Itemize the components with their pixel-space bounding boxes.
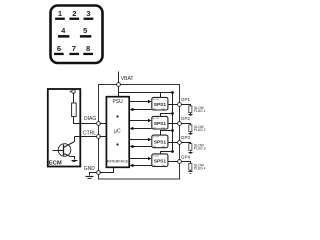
wire GP2 to glow plug: [182, 124, 191, 125]
wire GP3 to glow plug: [182, 143, 191, 144]
wire GP4 to glow plug: [182, 162, 191, 164]
VBAT stub wire: [118, 72, 120, 83]
wire CTRL: [75, 136, 97, 138]
svg-text:PLUG 4: PLUG 4: [194, 166, 206, 170]
collector riser wire to CTRL: [74, 137, 76, 142]
pin 6: [54, 44, 64, 55]
SPS4 In wire: [130, 158, 149, 160]
wire: [190, 132, 192, 134]
wire: [73, 93, 75, 103]
svg-text:INTERFACE: INTERFACE: [107, 158, 128, 163]
svg-text:SPS1: SPS1: [154, 121, 167, 127]
ground (glow plug 3): [189, 153, 193, 154]
terminal GP3: [178, 141, 182, 145]
pin 3: [84, 9, 94, 20]
svg-text:2: 2: [72, 9, 76, 18]
glow plug 1 (resistor): [189, 106, 192, 113]
svg-text:ECM: ECM: [49, 160, 62, 166]
pin 5: [80, 26, 91, 37]
SPS3 Out wire: [168, 142, 178, 144]
wire resistor to DIAG: [74, 117, 97, 124]
wire GND external to ground: [90, 173, 97, 176]
emitter wire to ground: [71, 157, 75, 160]
SPS1 top pin wire: [161, 93, 173, 98]
wire CTRL internal: [100, 136, 107, 138]
SPS1 In wire: [130, 101, 149, 103]
junction dots on bus: [171, 91, 174, 94]
svg-text:DIAG: DIAG: [84, 116, 96, 122]
terminal GND: [97, 171, 101, 175]
pin 4: [58, 26, 69, 37]
SPS supply bus: [172, 93, 174, 152]
svg-text:PLUG 2: PLUG 2: [194, 128, 206, 132]
svg-text:PSU: PSU: [112, 99, 123, 105]
SPS4 top pin wire: [161, 152, 173, 154]
terminal VBAT: [117, 83, 121, 87]
terminal DIAG: [97, 122, 101, 126]
pin 7: [69, 44, 79, 55]
svg-text:Out: Out: [161, 145, 165, 148]
svg-text:8: 8: [86, 44, 90, 53]
control unit boundary box: [99, 85, 180, 180]
svg-text:µC: µC: [114, 129, 121, 135]
svg-text:In TrB: In TrB: [153, 117, 159, 120]
svg-text:In TrB: In TrB: [153, 154, 159, 157]
SPS3 top pin wire: [161, 131, 173, 136]
wire DIAG internal: [100, 123, 107, 125]
ground (glow plug 2): [189, 134, 193, 135]
supply + terminal in ECM: [69, 89, 75, 95]
pin 2: [69, 9, 79, 20]
wire GP1 to glow plug: [182, 105, 191, 106]
label GLOW PLUG 4: [194, 163, 206, 170]
terminal GP2: [178, 122, 182, 126]
SPS3 In wire: [130, 139, 149, 141]
svg-text:PLUG 1: PLUG 1: [194, 109, 206, 113]
svg-text:PLUG 3: PLUG 3: [194, 147, 206, 151]
svg-text:GND: GND: [84, 166, 96, 172]
svg-text:GP4: GP4: [181, 155, 191, 160]
resistor R1 (pull-up in ECM): [72, 103, 77, 117]
label GLOW PLUG 2: [194, 125, 206, 132]
wire: [190, 171, 192, 172]
pin 8: [83, 44, 93, 55]
svg-text:VBAT: VBAT: [121, 76, 134, 82]
wire: [190, 113, 192, 115]
SPS U5: [152, 154, 168, 167]
glow plug 4 (resistor): [189, 163, 192, 170]
wire GND internal: [100, 168, 114, 173]
SPS2 On wire: [133, 128, 152, 130]
pin 1: [55, 9, 65, 20]
glow plug 2 (resistor): [189, 125, 192, 132]
svg-text:In TrB: In TrB: [153, 98, 159, 101]
svg-text:GP3: GP3: [181, 135, 191, 140]
terminal GP1: [178, 103, 182, 107]
svg-text:7: 7: [72, 44, 76, 53]
svg-text:SPS1: SPS1: [154, 158, 167, 164]
svg-text:CTRL: CTRL: [83, 131, 96, 137]
SPS3 On wire: [133, 146, 152, 148]
wire: [190, 151, 192, 152]
SPS1 Out wire: [168, 104, 178, 106]
SPS4 On wire: [133, 165, 152, 167]
connector J1 (relay socket pinout): [51, 6, 103, 64]
SPS U3: [152, 116, 168, 129]
SPS U4: [152, 135, 168, 148]
SPS U2: [152, 97, 168, 110]
IC U1 (PSU / uC / INTERFACE): [106, 97, 129, 168]
SPS2 In wire: [130, 120, 149, 122]
label GLOW PLUG 3: [194, 144, 206, 151]
svg-text:GP1: GP1: [181, 97, 191, 102]
ground (ECM emitter): [72, 161, 78, 162]
transistor Q1 in ECM: [53, 142, 75, 157]
svg-text:Out: Out: [161, 108, 165, 111]
SPS2 top pin wire: [161, 114, 173, 117]
terminal GP4: [178, 160, 182, 164]
SPS1 On wire: [133, 109, 152, 111]
svg-text:SPS1: SPS1: [154, 140, 167, 146]
ECM box: [48, 89, 81, 167]
glow plug 3 (resistor): [189, 144, 192, 151]
svg-text:3: 3: [86, 9, 90, 18]
ground (glow plug 4): [189, 172, 193, 174]
svg-text:GP2: GP2: [181, 116, 191, 121]
SPS4 Out wire: [168, 161, 178, 163]
svg-text:Out: Out: [161, 127, 165, 130]
svg-text:Out: Out: [161, 164, 165, 167]
wire VBAT feed to SPS bus: [119, 92, 173, 94]
ground (glow plug 1): [189, 115, 193, 116]
svg-text:SPS1: SPS1: [154, 102, 167, 108]
svg-text:In TrB: In TrB: [153, 136, 159, 139]
svg-text:6: 6: [57, 44, 61, 53]
wire VBAT to PSU: [118, 87, 120, 97]
label GLOW PLUG 1: [194, 106, 206, 113]
SPS2 Out wire: [168, 123, 178, 125]
terminal CTRL: [97, 135, 101, 139]
ground (GND terminal): [86, 177, 94, 179]
